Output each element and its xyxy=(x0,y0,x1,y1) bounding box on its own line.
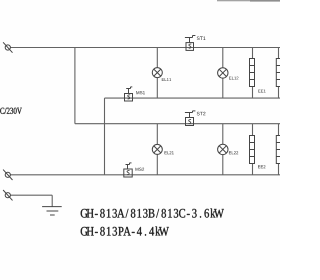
label MS2 xyxy=(135,168,144,171)
wire element EE2b leads xyxy=(278,124,280,175)
thermostat MS2 xyxy=(124,163,132,177)
thermal cutout ST1 xyxy=(185,36,196,51)
terminal X1 xyxy=(3,42,12,52)
heating element EE1 (section b) xyxy=(276,59,281,87)
ground xyxy=(42,207,62,215)
heating element EE2 (section a) xyxy=(250,136,255,164)
wire lamp EL22 leads xyxy=(222,124,224,175)
label EL11 xyxy=(162,78,171,81)
label EL22 xyxy=(229,151,238,154)
lamp EL21 xyxy=(152,144,162,154)
wire element EE1b leads xyxy=(278,48,280,99)
lamp EL12 xyxy=(218,68,228,78)
wire earth lead xyxy=(10,195,52,206)
label ST1 xyxy=(197,37,206,41)
label EL12 xyxy=(229,77,238,80)
label EL21 xyxy=(165,151,174,154)
lamp EL22 xyxy=(218,144,228,154)
terminal X2 xyxy=(3,170,12,180)
wire link rail1 to rail2 xyxy=(104,98,106,175)
heating element EE1 (section a) xyxy=(250,59,255,87)
wire group-2 return rail N xyxy=(10,174,280,176)
lamp EL11 xyxy=(152,68,162,78)
wire group-2 supply bus xyxy=(75,123,280,125)
terminal X3 (earth) xyxy=(3,190,12,200)
label model ratings line 2 xyxy=(81,226,169,235)
thermal cutout ST2 xyxy=(185,111,196,126)
label ST2 xyxy=(197,112,206,116)
wire lamp EL21 leads xyxy=(156,124,158,175)
wire lamp EL12 leads xyxy=(222,48,224,99)
label AC/230V supply xyxy=(0,108,22,114)
wire lamp EL11 leads xyxy=(156,48,158,99)
wire top supply bus L xyxy=(10,47,280,49)
label MS1 xyxy=(136,91,145,94)
wire feeder drop to group 2 xyxy=(74,48,76,124)
label EE1 xyxy=(258,90,265,93)
thermostat MS1 xyxy=(125,87,133,101)
label model ratings line 1 xyxy=(81,208,224,217)
wire group-1 return rail xyxy=(105,97,281,99)
label EE2 xyxy=(258,165,265,168)
wire element EE2a leads xyxy=(252,124,254,175)
wire element EE1a leads xyxy=(252,48,254,99)
heating element EE2 (section b) xyxy=(276,136,281,164)
